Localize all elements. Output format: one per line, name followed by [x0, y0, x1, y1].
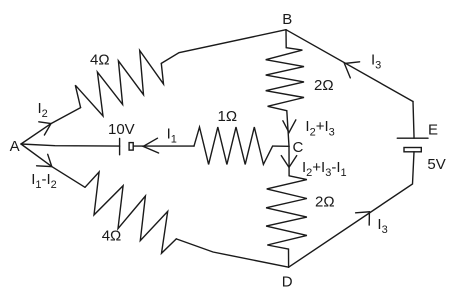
current arrow I2+I3-I1	[281, 156, 296, 168]
svg-text:2Ω: 2Ω	[314, 77, 334, 94]
current arrow I2+I3	[283, 120, 296, 133]
wire battery to lower corner and to D	[289, 152, 414, 267]
current arrow I3 top	[344, 62, 359, 78]
svg-text:10V: 10V	[108, 121, 135, 138]
wire C down to bottom 2ohm	[288, 146, 290, 176]
svg-text:I2+I3-I1: I2+I3-I1	[302, 159, 347, 179]
svg-text:4Ω: 4Ω	[90, 52, 110, 69]
wire A to 10V battery	[21, 144, 120, 146]
svg-text:B: B	[282, 11, 292, 28]
svg-text:I2: I2	[38, 100, 48, 120]
resistor 2ohm bottom (C-D)	[266, 176, 307, 249]
battery 10V short plate	[129, 143, 133, 151]
wire top 4ohm to node B	[161, 30, 286, 64]
svg-text:I1: I1	[167, 126, 177, 146]
wire B down to 2ohm	[285, 30, 287, 48]
svg-text:D: D	[282, 273, 293, 290]
current arrow I2	[39, 122, 51, 135]
current arrow I1-I2	[37, 154, 52, 166]
resistor R2 4ohm (A-D)	[85, 172, 176, 253]
svg-text:A: A	[10, 138, 20, 155]
svg-text:I2+I3: I2+I3	[305, 118, 334, 139]
svg-text:I1-I2: I1-I2	[31, 171, 57, 191]
battery E short plate	[404, 148, 421, 152]
svg-text:E: E	[428, 121, 438, 138]
battery 10V long plate	[119, 139, 121, 155]
wire A to bottom 4ohm resistor	[21, 144, 85, 187]
svg-text:2Ω: 2Ω	[315, 194, 335, 211]
wire bottom 2ohm to node D	[288, 249, 290, 267]
current arrow I1	[143, 138, 158, 153]
resistor 1ohm (battery-C)	[194, 127, 273, 164]
resistor R1 4ohm (A-B)	[75, 51, 163, 117]
svg-text:1Ω: 1Ω	[218, 108, 238, 125]
wire B to right corner	[286, 30, 413, 102]
wire 10V battery to 1ohm resistor	[133, 145, 194, 147]
svg-text:I3: I3	[377, 216, 387, 236]
battery E long plate	[397, 137, 428, 139]
wire bottom 4ohm to node D	[176, 239, 288, 267]
current arrow I3 bottom	[356, 212, 370, 225]
svg-text:5V: 5V	[427, 156, 445, 173]
wire A to top 4ohm resistor	[21, 108, 81, 144]
wire 2ohm to node C	[287, 111, 289, 147]
resistor 2ohm top (B-C)	[266, 48, 304, 111]
wire 1ohm to node C	[273, 145, 289, 147]
wire corner to battery E	[413, 102, 414, 139]
svg-text:4Ω: 4Ω	[102, 227, 122, 244]
svg-text:C: C	[293, 139, 304, 156]
svg-text:I3: I3	[371, 52, 381, 72]
